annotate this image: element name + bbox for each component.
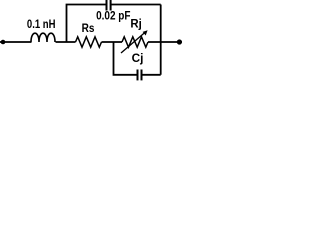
- svg-text:Cj: Cj: [132, 51, 144, 65]
- svg-text:0.1 nH: 0.1 nH: [27, 17, 56, 31]
- svg-text:Rj: Rj: [130, 17, 141, 31]
- svg-text:Rs: Rs: [82, 21, 95, 35]
- svg-text:0.02 pF: 0.02 pF: [96, 9, 130, 23]
